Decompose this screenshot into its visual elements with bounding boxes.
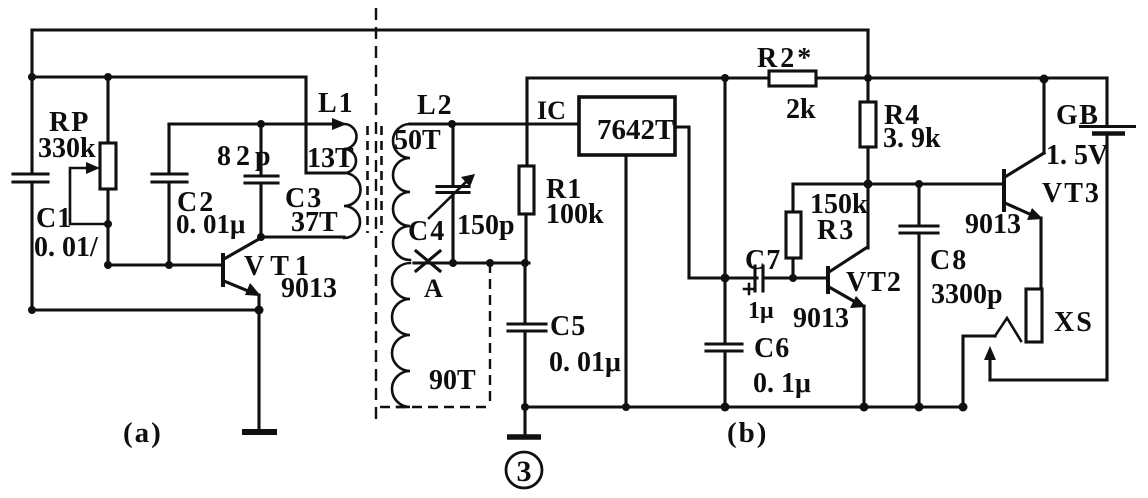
wire VT2 collector feed (866, 184, 869, 248)
capacitor C8 plates and leads (900, 184, 938, 407)
wire left vertical rail (a) (30, 30, 33, 310)
wire oscillator top link y124 to L1 (169, 122, 334, 125)
resistor RP body (100, 143, 116, 189)
wire AGC vertical from rail (723, 78, 726, 344)
transistor VT1 emitter with arrow (224, 281, 253, 293)
svg-text:C8: C8 (930, 245, 968, 276)
svg-text:1μ: 1μ (748, 298, 774, 324)
svg-text:0. 01μ: 0. 01μ (549, 347, 621, 378)
battery GB feed corner (1105, 78, 1108, 125)
node C8 top junction (915, 180, 923, 188)
wire VT3 emitter to jack (1039, 218, 1042, 289)
node VT2 emitter ground junction (860, 403, 869, 412)
wire VT1 base rail y265 (108, 263, 221, 266)
wire L2 top to IC input y124 (410, 122, 579, 125)
wire VT2 emitter to ground (862, 306, 865, 407)
capacitor C2 plates and leads (152, 124, 187, 265)
node junction rail/left rail (28, 73, 36, 81)
svg-text:7642T: 7642T (597, 114, 674, 146)
svg-text:50T: 50T (394, 125, 441, 156)
node A tap X mark (416, 251, 440, 271)
resistor R2 body (769, 71, 816, 86)
svg-text:A: A (424, 274, 443, 303)
svg-text:90T: 90T (429, 365, 476, 396)
node VT3 collector rail junction (1040, 75, 1049, 84)
wire C7 to VT2 base (765, 276, 826, 279)
dashed box around 90T winding (489, 263, 491, 407)
node ground rail left corner (521, 403, 529, 411)
node ground rail right corner (959, 403, 968, 412)
svg-text:C7: C7 (745, 245, 781, 276)
wire second rail (a) y77 (32, 75, 306, 78)
wire RP top lead (106, 77, 109, 143)
resistor R1 body (519, 166, 534, 214)
svg-text:0. 1μ: 0. 1μ (753, 368, 811, 399)
svg-text:0. 01/: 0. 01/ (34, 232, 99, 263)
svg-text:(b): (b) (727, 417, 768, 449)
svg-text:9013: 9013 (281, 273, 337, 304)
transistor VT3 collector (1005, 81, 1044, 177)
transistor VT2 base bar (826, 266, 830, 294)
wire R1 bottom lead (524, 214, 527, 263)
node rail junction x725 (721, 74, 729, 82)
section separator dash line (375, 8, 377, 420)
node emitter junction y310 (255, 306, 264, 315)
wire collector to L1 bottom y237 (261, 235, 344, 238)
jack XS spring contact (995, 318, 1021, 341)
transistor VT1 base bar (221, 253, 225, 287)
transistor VT2 collector (829, 248, 866, 272)
svg-text:IC: IC (537, 96, 566, 125)
node IC ground junction (622, 403, 630, 411)
inductor L1 winding 13T (344, 124, 356, 173)
svg-text:100k: 100k (546, 199, 604, 230)
svg-text:3300p: 3300p (931, 279, 1003, 310)
capacitor C1 plates (13, 174, 48, 182)
svg-text:R3: R3 (817, 215, 855, 246)
wire supply rail (b) y78 (527, 76, 1107, 79)
svg-text:VT3: VT3 (1042, 178, 1101, 209)
node base-wire corner (104, 261, 112, 269)
ground rail (b) y407 (525, 405, 963, 408)
inductor L2 winding 90T (392, 263, 410, 407)
wire IC output pin to AGC node (675, 127, 757, 278)
node C6 ground junction (721, 403, 730, 412)
wire RP bottom lead (106, 189, 109, 265)
svg-text:R2*: R2* (757, 43, 814, 74)
node C4 bottom junction (449, 259, 457, 267)
inductor L1 winding 37T (344, 173, 361, 238)
battery GB plates (1079, 125, 1136, 128)
wire IC ground pin (624, 155, 627, 407)
svg-text:C4: C4 (408, 216, 446, 247)
wire top rail right corner drop (866, 30, 869, 102)
capacitor C4 variable, plates leads arrow (437, 124, 469, 263)
wire tap rail y263 (414, 261, 529, 264)
figure number circled 3 (506, 452, 542, 488)
svg-text:3: 3 (517, 455, 532, 488)
svg-text:330k: 330k (38, 133, 96, 164)
transistor VT3 emitter with arrow (1005, 203, 1034, 216)
node left corner y310 (28, 306, 36, 314)
svg-text:9013: 9013 (965, 209, 1021, 240)
node wiper junction (104, 220, 112, 228)
wire jack contact to ground rail (963, 336, 995, 407)
svg-text:L1: L1 (318, 88, 355, 119)
transistor VT2 emitter with arrow (829, 287, 857, 303)
wire battery to plug (990, 378, 1107, 381)
svg-text:0. 01μ: 0. 01μ (176, 209, 245, 239)
node junction RP feed (104, 73, 112, 81)
node R1/C5 junction (521, 259, 529, 267)
wire bottom return y310 (a) (32, 308, 259, 311)
svg-text:9013: 9013 (793, 303, 849, 334)
ground symbol (a) (242, 429, 277, 435)
ground symbol (b) (523, 407, 526, 434)
svg-text:37T: 37T (291, 207, 338, 238)
capacitor C3 plates and leads (245, 124, 278, 237)
node R3 bottom junction (789, 274, 797, 282)
transistor VT1 collector (224, 239, 259, 259)
svg-text:XS: XS (1054, 307, 1094, 338)
capacitor C6 plates and lead (706, 344, 742, 407)
svg-text:(a): (a) (123, 417, 163, 449)
C7 plus mark (744, 284, 754, 294)
node R4 bottom junction (864, 180, 873, 189)
capacitor C5 plates and leads (508, 263, 546, 407)
wire top supply rail (32, 28, 868, 31)
svg-text:2k: 2k (786, 94, 816, 125)
inductor L2 winding 50T (393, 124, 410, 260)
svg-text:82p: 82p (217, 141, 276, 172)
RP wiper arm with arrow (70, 168, 106, 224)
node VT1 collector junction (257, 233, 265, 241)
svg-text:3. 9k: 3. 9k (883, 123, 941, 154)
node dashed-box corner junction (486, 259, 494, 267)
node C2 bottom junction (165, 261, 173, 269)
svg-text:VT2: VT2 (846, 267, 902, 298)
node L2 top / C4 junction (448, 120, 456, 128)
wire emitter drop to y310 (257, 295, 260, 310)
wire R1 feed from rail (525, 78, 528, 166)
node rail junction x868 (864, 74, 872, 82)
wire VT2 collector node rail y184 (793, 182, 1003, 185)
svg-text:C1: C1 (36, 203, 72, 234)
jack XS body (1026, 289, 1042, 342)
svg-text:13T: 13T (307, 143, 354, 174)
op-amp U1 IC 7642T box (579, 97, 675, 155)
svg-text:GB: GB (1056, 100, 1099, 131)
transistor VT3 base bar (1002, 169, 1006, 212)
node C3 top junction (257, 120, 265, 128)
svg-text:1. 5V: 1. 5V (1046, 140, 1108, 171)
svg-text:C5: C5 (550, 311, 586, 342)
svg-text:L2: L2 (417, 90, 454, 121)
transformer core dashed lines (368, 126, 382, 233)
wire battery negative down (1105, 136, 1108, 380)
node C8 ground junction (915, 403, 924, 412)
capacitor C7 polarized plates (755, 266, 763, 291)
wire VT1 emitter to ground (257, 310, 260, 429)
plug arrow into jack (988, 356, 991, 380)
svg-text:150p: 150p (457, 210, 515, 241)
node AGC junction (721, 274, 730, 283)
resistor R3 body and leads (786, 212, 801, 258)
svg-text:C6: C6 (754, 333, 790, 364)
resistor R4 body and lead (860, 102, 876, 147)
wire L1 tap feed from rail (306, 77, 344, 173)
